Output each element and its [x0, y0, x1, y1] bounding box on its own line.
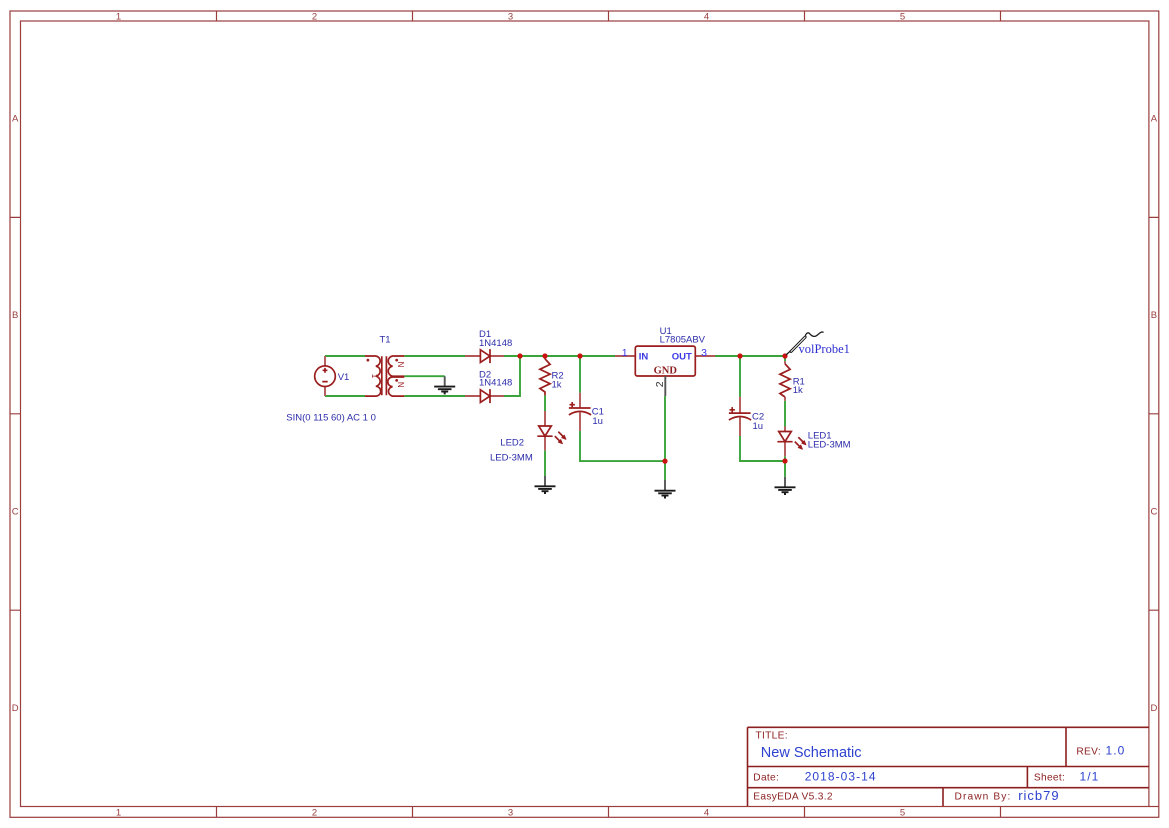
junction node rail at R2	[542, 353, 547, 358]
voltage source V1	[315, 356, 336, 396]
secondary bottom winding	[388, 377, 405, 396]
wire C1 bottom to gnd node	[580, 431, 665, 461]
LED LED2	[537, 411, 566, 450]
junction node out at probe	[782, 353, 787, 358]
diode D1	[465, 349, 504, 363]
LED2 arrows	[555, 432, 563, 441]
svg-text:LED2: LED2	[500, 437, 524, 448]
secondary top winding	[388, 356, 404, 376]
svg-text:IN: IN	[639, 351, 649, 362]
svg-text:Drawn By:: Drawn By:	[955, 792, 1012, 803]
svg-text:C: C	[12, 506, 19, 517]
svg-text:3: 3	[508, 11, 513, 22]
svg-text:OUT: OUT	[672, 351, 692, 362]
svg-text:TITLE:: TITLE:	[756, 731, 788, 742]
svg-text:1u: 1u	[753, 421, 764, 432]
svg-text:A: A	[12, 114, 19, 125]
wire LED2 to ground	[544, 450, 546, 476]
svg-text:3: 3	[508, 807, 513, 818]
svg-text:D: D	[1150, 703, 1157, 714]
wire U1 out rail	[715, 355, 785, 357]
probe volProbe1	[786, 332, 824, 355]
svg-text:1k: 1k	[552, 380, 562, 391]
wire T1 sec top to D1	[404, 355, 465, 357]
primary winding	[365, 356, 381, 396]
svg-text:1: 1	[622, 347, 628, 359]
capacitor C1	[569, 393, 591, 431]
svg-text:ricb79: ricb79	[1018, 788, 1059, 803]
junction node rail at D1/D2	[517, 353, 522, 358]
svg-text:T1: T1	[380, 334, 391, 345]
wire U1 pin2 to gnd node	[664, 396, 666, 480]
core	[382, 356, 387, 395]
wire R2 branch top stub	[544, 356, 546, 359]
ground at LED2	[535, 476, 556, 493]
svg-text:N: N	[396, 362, 405, 368]
svg-text:LED-3MM: LED-3MM	[808, 440, 851, 451]
svg-text:2: 2	[654, 381, 666, 387]
ruler numbers top	[116, 11, 905, 22]
svg-text:B: B	[1151, 310, 1157, 321]
svg-text:5: 5	[900, 807, 905, 818]
svg-text:D: D	[12, 703, 19, 714]
wire node to ground right	[784, 461, 786, 477]
polarity dot secondary top	[395, 359, 398, 362]
diode D2	[465, 389, 504, 403]
svg-text:5: 5	[900, 11, 905, 22]
wire T1 sec bottom to D2	[404, 395, 465, 397]
wire LED1 to node	[784, 456, 786, 461]
svg-text:1: 1	[116, 11, 121, 22]
LED LED1	[777, 427, 806, 457]
svg-text:1: 1	[116, 807, 121, 818]
inner frame corner notch bottom right	[1149, 806, 1159, 808]
junction node gnd under U1	[662, 459, 667, 464]
svg-text:New Schematic: New Schematic	[761, 745, 862, 761]
svg-text:REV:: REV:	[1076, 747, 1101, 758]
wire R1 to LED1	[784, 401, 786, 427]
ground at LED1	[775, 477, 796, 494]
wire T1 center tap to ground	[404, 375, 444, 377]
LED1 arrows	[795, 437, 803, 446]
wire C2 branch	[739, 356, 741, 397]
wire D1 to U1 rail	[504, 355, 615, 357]
svg-text:B: B	[12, 310, 18, 321]
svg-text:EasyEDA V5.3.2: EasyEDA V5.3.2	[753, 792, 833, 803]
svg-text:V1: V1	[338, 372, 350, 383]
svg-text:1/1: 1/1	[1080, 770, 1100, 784]
svg-text:1: 1	[370, 374, 379, 379]
svg-text:GND: GND	[654, 366, 678, 377]
ruler ticks bottom	[217, 807, 1001, 818]
ruler ticks right	[1149, 217, 1159, 610]
svg-text:N: N	[396, 382, 405, 388]
ruler ticks top	[217, 11, 1001, 21]
svg-text:SIN(0 115 60) AC 1 0: SIN(0 115 60) AC 1 0	[286, 413, 376, 424]
junction node rail at C1	[577, 353, 582, 358]
svg-text:3: 3	[701, 347, 707, 359]
wire R1 top stub	[784, 356, 786, 361]
ruler numbers bottom	[116, 807, 905, 818]
junction node out at C2	[737, 353, 742, 358]
svg-text:4: 4	[704, 11, 709, 22]
svg-text:C: C	[1150, 506, 1157, 517]
wire R2 to LED2	[544, 395, 546, 411]
svg-text:volProbe1: volProbe1	[799, 342, 850, 356]
resistor R1	[780, 361, 790, 401]
ruler ticks left	[10, 217, 21, 610]
svg-text:Date:: Date:	[753, 773, 779, 784]
ground under U1	[655, 480, 676, 498]
ruler letters right	[1150, 114, 1157, 714]
junction node LED1/C2	[782, 458, 787, 463]
wire D2 out up to rail	[504, 356, 520, 396]
polarity dot secondary bottom	[395, 379, 398, 382]
title block	[748, 727, 1149, 806]
wire C2 bottom to node	[740, 436, 785, 461]
wire V1 bottom to T1 primary	[325, 395, 365, 397]
transformer T1	[365, 356, 405, 396]
svg-text:1u: 1u	[592, 416, 603, 427]
svg-text:LED-3MM: LED-3MM	[490, 452, 533, 463]
ground at T1 center tap	[434, 376, 455, 393]
wire V1 top to T1 primary	[325, 355, 365, 357]
svg-text:4: 4	[704, 807, 709, 818]
wire C1 branch	[579, 356, 581, 393]
svg-text:1N4148: 1N4148	[479, 377, 512, 388]
svg-text:1.0: 1.0	[1106, 744, 1126, 758]
svg-text:1N4148: 1N4148	[479, 338, 512, 349]
capacitor C2	[729, 397, 751, 436]
IC U1 regulator	[615, 346, 715, 396]
svg-text:1k: 1k	[793, 385, 803, 396]
ruler letters left	[12, 114, 19, 714]
polarity dot primary	[367, 359, 370, 362]
svg-text:A: A	[1151, 114, 1158, 125]
svg-text:2: 2	[312, 11, 317, 22]
svg-text:2: 2	[312, 807, 317, 818]
svg-text:L7805ABV: L7805ABV	[660, 335, 706, 346]
svg-text:Sheet:: Sheet:	[1034, 773, 1065, 784]
svg-text:2018-03-14: 2018-03-14	[805, 770, 877, 784]
resistor R2	[540, 359, 550, 396]
